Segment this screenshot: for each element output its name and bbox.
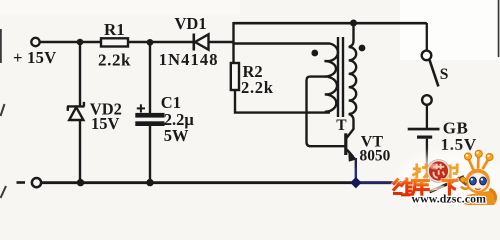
blue tint segment on rail <box>358 181 395 184</box>
wire emitter to rail (blue tinted) <box>355 158 357 168</box>
transformer T winding A (feedback, top-left) <box>234 44 338 77</box>
wire bottom rail <box>41 181 427 184</box>
junction dot rail VD2 <box>77 179 84 186</box>
zener diode VD2 <box>67 42 85 182</box>
scan artifact left mid <box>1 104 5 116</box>
polarity dot winding C <box>359 45 366 52</box>
text weikuyixia <box>394 179 457 196</box>
base bar <box>344 133 347 155</box>
svg-text:www.dzsc.com: www.dzsc.com <box>412 191 487 205</box>
svg-text:S: S <box>440 66 449 83</box>
mascot crown <box>465 150 494 170</box>
emitter lead with arrow <box>347 150 353 157</box>
terminal - output <box>32 178 41 187</box>
transistor VT <box>344 129 357 162</box>
svg-text:2.2k: 2.2k <box>241 78 274 97</box>
transformer winding C (secondary, right) <box>349 24 357 130</box>
wire VD1 to node <box>210 41 235 43</box>
polarity dot winding A <box>311 50 318 57</box>
node B junction dot (C1 branch) <box>147 39 154 46</box>
wire winding A-B tap <box>307 77 345 147</box>
wire top-left rail <box>40 41 193 43</box>
diode VD1 <box>194 34 209 51</box>
wire R2 bottom to winding B bottom <box>235 90 330 113</box>
switch S <box>422 23 439 128</box>
svg-text:2.2k: 2.2k <box>98 50 131 69</box>
svg-text:+ 15V: + 15V <box>13 48 56 67</box>
mascot pen <box>430 177 467 193</box>
char pian (piece) <box>448 164 458 179</box>
svg-text:1N4148: 1N4148 <box>159 50 219 69</box>
svg-text:15V: 15V <box>91 114 120 133</box>
svg-text:T: T <box>336 117 347 134</box>
node A junction dot (VD2 branch) <box>77 39 84 46</box>
junction dot rail C1 <box>146 179 153 186</box>
watermark <box>394 150 500 208</box>
minus sign <box>17 181 26 184</box>
junction dot top rail <box>350 20 357 27</box>
svg-text:R1: R1 <box>104 20 125 39</box>
transformer T winding B (lower-left) <box>325 77 337 112</box>
svg-text:8050: 8050 <box>360 147 391 164</box>
svg-text:5W: 5W <box>164 126 189 145</box>
collector lead <box>346 129 354 139</box>
wire node vertical <box>232 22 234 64</box>
seal circle with xin <box>427 160 450 183</box>
text weikuyixia white halo <box>394 179 457 196</box>
mascot body <box>461 169 497 205</box>
svg-text:VD1: VD1 <box>175 14 207 33</box>
wire top rail <box>234 22 427 25</box>
capacitor C1 <box>135 42 164 182</box>
resistor R1 <box>101 38 128 46</box>
char zhao (find) <box>412 164 431 179</box>
scan artifact right edge <box>498 0 500 57</box>
scan artifact left edge <box>0 29 2 63</box>
transformer core <box>338 37 343 117</box>
resistor R2 <box>231 63 239 90</box>
battery GB <box>408 128 440 182</box>
junction dot rail emitter (blue) <box>350 177 361 188</box>
svg-text:1.5V: 1.5V <box>441 135 477 154</box>
scan artifact left bottom <box>1 186 7 198</box>
terminal + input <box>31 38 39 46</box>
